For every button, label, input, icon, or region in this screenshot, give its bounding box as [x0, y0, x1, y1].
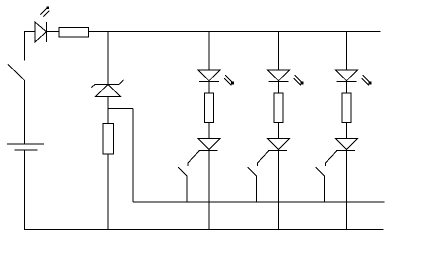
- resistor R4: [274, 93, 283, 123]
- resistor R2: [103, 124, 114, 154]
- wire: [24, 32, 35, 61]
- SCR Q2: [258, 139, 290, 167]
- wire: [208, 122, 210, 138]
- SCR Q1: [188, 139, 220, 167]
- wire: [133, 201, 385, 203]
- LED D4: [268, 70, 303, 85]
- wire: [89, 31, 381, 33]
- wire: [208, 150, 210, 230]
- LED D3: [198, 70, 233, 85]
- switch S2: [178, 167, 187, 202]
- wire: [107, 32, 109, 85]
- wire: [278, 150, 280, 230]
- wire: [346, 32, 348, 71]
- wire: [278, 82, 280, 93]
- wire: [278, 122, 280, 138]
- switch S1: [8, 65, 25, 145]
- wire: [346, 82, 348, 93]
- LED D5: [336, 70, 371, 85]
- SCR Q3: [326, 139, 358, 167]
- switch S4: [316, 167, 325, 202]
- wire: [108, 109, 133, 203]
- resistor R5: [342, 93, 351, 123]
- wire: [24, 229, 384, 231]
- battery B1: [7, 144, 44, 230]
- zener diode D2: [91, 80, 124, 97]
- wire: [208, 32, 210, 71]
- wire: [346, 122, 348, 138]
- LED D1: [35, 7, 49, 42]
- resistor R1: [59, 28, 89, 38]
- wire: [278, 32, 280, 71]
- resistor R3: [205, 93, 214, 123]
- wire: [47, 31, 60, 33]
- wire: [208, 82, 210, 93]
- wire: [107, 97, 109, 124]
- switch S3: [248, 167, 257, 202]
- wire: [107, 154, 109, 230]
- wire: [346, 150, 348, 230]
